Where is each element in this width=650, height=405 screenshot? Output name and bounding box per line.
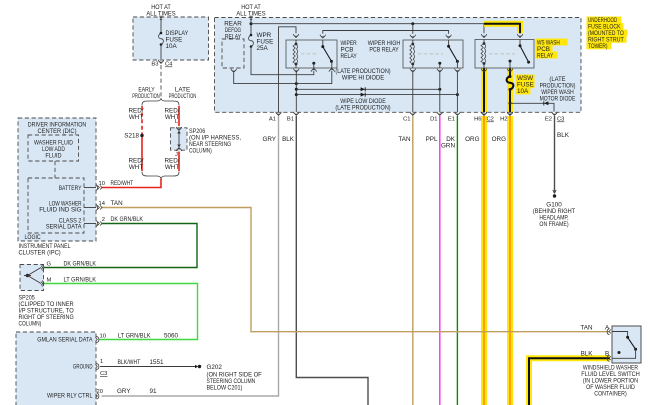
svg-text:C1: C1	[403, 117, 410, 123]
svg-text:MOTOR DIODE: MOTOR DIODE	[540, 96, 576, 103]
ground G100	[553, 190, 556, 193]
svg-text:TAN: TAN	[398, 136, 411, 143]
diode wipe low	[361, 93, 366, 97]
node D1 junction	[438, 88, 441, 91]
svg-text:TAN: TAN	[580, 325, 593, 332]
wire PPL D1 down	[439, 116, 441, 405]
coil wiper pcb relay	[293, 43, 298, 66]
wire hot feed display fuse	[160, 16, 162, 34]
wire BLK E2 to G100	[554, 116, 556, 193]
svg-text:91: 91	[150, 388, 158, 395]
svg-text:C3: C3	[557, 117, 564, 123]
wire RED/WHT late lower	[178, 152, 180, 172]
fuse WPR 25A	[249, 35, 254, 47]
washer fluid level switch box	[612, 326, 641, 363]
pin M SP205	[41, 281, 44, 287]
svg-text:S218: S218	[124, 133, 139, 140]
svg-text:G202: G202	[207, 364, 223, 371]
wire rear defog to wiper relay NO contact	[234, 71, 332, 84]
ground G202	[195, 365, 198, 368]
svg-text:GRY: GRY	[262, 136, 276, 143]
svg-text:BLK/WHT: BLK/WHT	[118, 359, 141, 366]
svg-text:1551: 1551	[150, 359, 165, 366]
svg-text:C3: C3	[100, 371, 107, 377]
svg-text:PCB RELAY: PCB RELAY	[369, 47, 399, 54]
DIC / IPC outer box	[18, 118, 96, 241]
svg-text:H6: H6	[474, 117, 481, 123]
svg-text:ORG: ORG	[492, 136, 506, 143]
svg-text:LOGIC: LOGIC	[25, 234, 42, 241]
svg-text:WHT: WHT	[165, 164, 179, 171]
wire B1 drop	[295, 71, 297, 112]
svg-text:LT GRN/BLK: LT GRN/BLK	[64, 277, 97, 284]
wire H6 drop thick (highlighted)	[481, 68, 487, 112]
contact output ws wash	[509, 60, 512, 63]
svg-text:1: 1	[100, 359, 103, 365]
svg-text:RELAY: RELAY	[225, 34, 242, 41]
node wiper high coil branch	[411, 22, 414, 25]
pins IPC battery/low washer/class2	[84, 187, 96, 189]
wire bus A (B+ feed)	[251, 23, 484, 25]
svg-text:D1: D1	[430, 117, 437, 123]
splice SP205 internals	[26, 274, 29, 277]
svg-text:5060: 5060	[164, 333, 179, 340]
splice S218	[140, 134, 143, 137]
svg-text:FLUID: FLUID	[45, 153, 62, 160]
rear defog relay box	[222, 39, 244, 68]
relay ws wash pcb box	[475, 40, 534, 69]
underhood fuse block box	[215, 18, 582, 113]
wire hot feed WPR fuse	[250, 16, 252, 36]
wire BLK thick to ws wash switch (highlighted)	[484, 24, 520, 34]
wire fuse to B3	[160, 45, 162, 60]
node B1/defog junction	[295, 82, 298, 85]
svg-text:25A: 25A	[257, 45, 269, 52]
wire TAN C1 down	[412, 116, 414, 405]
node E1 junction	[456, 93, 459, 96]
wire DK GRN E1 down	[456, 116, 458, 405]
wire ORG H2 down (highlighted)	[507, 116, 513, 405]
diode wipe hi	[361, 87, 366, 91]
svg-text:GROUND: GROUND	[73, 364, 93, 371]
dashed actuation link wiper high	[418, 53, 443, 55]
washer fluid low add fluid inner box	[28, 135, 79, 161]
wire H2 drop + fuse WSW 10A (highlighted)	[507, 68, 513, 112]
diode wiper wash motor	[544, 101, 549, 105]
svg-text:RED/WHT: RED/WHT	[111, 180, 134, 187]
display fuse box	[133, 17, 209, 60]
svg-text:G: G	[47, 262, 52, 268]
svg-text:GRN: GRN	[441, 143, 455, 150]
relay wiper pcb box	[286, 40, 337, 68]
coil wiper high relay	[410, 43, 415, 66]
IPC logic inner box	[28, 178, 84, 233]
wire wipe low diode row	[296, 94, 457, 96]
wire RED/WHT early lower	[141, 137, 143, 171]
node wiper wash diode junction	[509, 102, 512, 105]
svg-text:PPL: PPL	[426, 136, 438, 143]
svg-text:10: 10	[100, 334, 106, 340]
svg-text:BLK: BLK	[581, 351, 594, 358]
switch wiper pcb relay	[322, 40, 324, 47]
svg-text:E2: E2	[545, 117, 552, 123]
contact NC wiper pcb	[312, 62, 315, 65]
washer fluid level switch internals	[612, 332, 628, 338]
svg-text:RELAY: RELAY	[537, 53, 554, 60]
wire LT GRN/BLK gmlan loop	[44, 284, 198, 340]
svg-text:(LATE PRODUCTION): (LATE PRODUCTION)	[335, 105, 390, 112]
node wipe low junction	[295, 93, 298, 96]
svg-text:LT GRN/BLK: LT GRN/BLK	[118, 333, 151, 340]
svg-text:ON FRAME): ON FRAME)	[539, 221, 568, 228]
svg-text:H2: H2	[500, 117, 507, 123]
svg-text:E1: E1	[448, 117, 455, 123]
relay wiper high pcb box	[403, 40, 463, 68]
label WSW fuse (highlighted)	[516, 75, 535, 82]
svg-text:CONTAINER): CONTAINER)	[594, 391, 627, 398]
wire BLK thick level switch to bottom (highlighted)	[529, 358, 610, 405]
switch ws wash relay	[519, 40, 521, 46]
wire RED/WHT to pin 10	[102, 179, 162, 188]
coil ws wash relay	[481, 42, 486, 65]
svg-text:WIPER RLY CTRL: WIPER RLY CTRL	[47, 393, 93, 400]
svg-text:BELOW C201): BELOW C201)	[207, 385, 243, 392]
brace early/late join	[142, 172, 179, 179]
wire E1 drop	[456, 71, 458, 112]
svg-text:FLUID IND SIG: FLUID IND SIG	[39, 206, 81, 213]
switch wiper high relay	[448, 40, 450, 46]
pin rear defog relay	[231, 69, 236, 73]
svg-text:GMLAN SERIAL DATA: GMLAN SERIAL DATA	[37, 337, 93, 344]
node wipe hi junction	[295, 88, 298, 91]
dashed actuation link wiper pcb	[301, 53, 318, 55]
connector pins bottom edge	[276, 112, 281, 116]
pin J SP206	[176, 148, 181, 152]
svg-text:GRY: GRY	[117, 388, 131, 395]
pin L SP206	[176, 127, 181, 130]
pins GMLAN box	[96, 336, 99, 342]
label ws wash pcb relay (highlighted)	[536, 39, 568, 46]
splice SP205 box	[20, 265, 44, 291]
svg-text:14: 14	[99, 201, 106, 207]
label underhood fuse block (highlighted)	[587, 17, 622, 24]
wire BLK B1 down	[296, 116, 368, 405]
wire DK GRN/BLK class2 loop	[44, 224, 198, 268]
pin A level switch	[607, 329, 611, 335]
pin B3/C4	[158, 60, 163, 64]
svg-text:TOWER): TOWER)	[588, 43, 608, 50]
node WPR fuse top junction	[250, 22, 253, 25]
fuse DISPLAY 10A	[159, 33, 164, 45]
wire BLK/WHT ground 1551	[100, 366, 196, 368]
svg-text:COLUMN): COLUMN)	[189, 148, 212, 155]
brace early/late split	[142, 99, 179, 106]
svg-text:DK GRN/BLK: DK GRN/BLK	[111, 216, 144, 223]
wire branch to wiper high coil	[412, 24, 414, 34]
svg-text:CLUSTER (IPC): CLUSTER (IPC)	[19, 250, 61, 257]
svg-text:WHT: WHT	[129, 114, 143, 121]
svg-text:CENTER (DIC): CENTER (DIC)	[38, 128, 77, 135]
svg-text:2: 2	[102, 217, 105, 223]
svg-text:B3: B3	[151, 62, 158, 68]
wire wipe hi diode row	[296, 88, 440, 90]
svg-text:BLK: BLK	[557, 132, 570, 139]
wire logic link	[54, 161, 56, 178]
splice SP206 arrow	[178, 131, 180, 147]
svg-text:20: 20	[97, 389, 103, 395]
svg-text:COLUMN): COLUMN)	[19, 321, 42, 328]
wire C1 drop	[412, 71, 414, 112]
pin B level switch	[607, 355, 611, 361]
svg-text:BATTERY: BATTERY	[59, 185, 82, 192]
svg-text:ALL TIMES: ALL TIMES	[236, 11, 265, 18]
svg-text:B1: B1	[287, 117, 294, 123]
svg-text:SERIAL DATA: SERIAL DATA	[46, 224, 83, 231]
svg-text:A1: A1	[269, 117, 276, 123]
wire branch to ws wash coil	[483, 24, 485, 34]
dashed actuation link ws wash	[489, 53, 515, 55]
wire WPR fuse to wiper relay contact	[251, 47, 314, 75]
pin G SP205	[41, 265, 44, 271]
wire ORG H6 down (highlighted)	[481, 116, 487, 405]
wire D1 drop	[439, 71, 441, 112]
svg-text:B: B	[605, 351, 609, 358]
svg-text:10: 10	[99, 181, 105, 187]
wire bus B wiper switch commons	[323, 31, 449, 34]
svg-text:WIPE HI DIODE: WIPE HI DIODE	[342, 75, 384, 82]
wire dashed early/late	[160, 65, 162, 99]
contact NC wiper high	[438, 62, 441, 65]
svg-text:PRODUCTION: PRODUCTION	[169, 93, 197, 100]
svg-text:10A: 10A	[166, 43, 178, 50]
splice SP206 box	[171, 128, 188, 150]
svg-text:C2: C2	[487, 117, 494, 123]
wire RED/WHT late upper	[178, 106, 180, 126]
svg-text:WHT: WHT	[129, 164, 143, 171]
svg-text:ALL TIMES: ALL TIMES	[146, 11, 175, 18]
svg-text:10A: 10A	[517, 88, 529, 95]
svg-text:BLK: BLK	[282, 136, 295, 143]
svg-text:DK GRN/BLK: DK GRN/BLK	[64, 261, 97, 268]
svg-text:RELAY: RELAY	[341, 53, 358, 60]
wire A1 loop to wiper coil	[279, 27, 297, 112]
wiper switch module box (GMLAN)	[16, 332, 96, 405]
wire TAN bus IPC pin14 to level switch	[102, 208, 610, 332]
svg-text:ORG: ORG	[465, 136, 479, 143]
svg-text:M: M	[47, 278, 52, 284]
wire wiper wash motor diode row	[510, 103, 554, 111]
wire GRY A1 to wiper rly ctrl	[102, 116, 279, 396]
wire RED/WHT early (dashed)	[141, 106, 143, 134]
svg-text:PRODUCTION: PRODUCTION	[132, 93, 160, 100]
svg-text:C4: C4	[165, 62, 173, 68]
svg-text:TAN: TAN	[111, 200, 124, 207]
